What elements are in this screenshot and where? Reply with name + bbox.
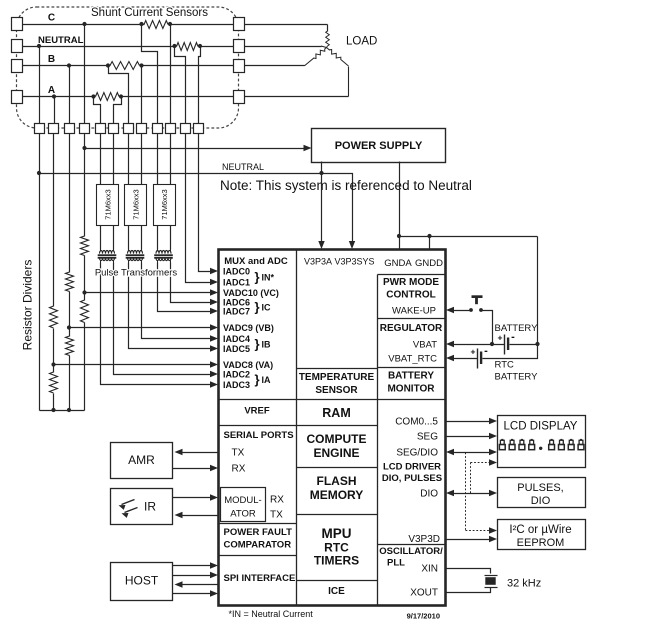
svg-text:B: B — [48, 54, 55, 65]
svg-text:VREF: VREF — [244, 406, 270, 417]
svg-text:-: - — [484, 345, 488, 357]
svg-text:Pulse Transformers: Pulse Transformers — [95, 268, 178, 279]
svg-text:RTC: RTC — [495, 360, 514, 371]
svg-text:XOUT: XOUT — [410, 588, 438, 599]
svg-text:COM0...5: COM0...5 — [395, 417, 438, 428]
svg-text:RX: RX — [270, 495, 284, 506]
svg-text:RX: RX — [232, 464, 246, 475]
svg-text:NEUTRAL: NEUTRAL — [222, 162, 264, 172]
svg-text:32 kHz: 32 kHz — [507, 578, 541, 590]
svg-text:TX: TX — [270, 510, 283, 521]
svg-text:SEG: SEG — [417, 432, 438, 443]
svg-text:IADC1: IADC1 — [223, 277, 250, 287]
svg-text:VBAT_RTC: VBAT_RTC — [388, 354, 437, 365]
svg-text:IADC3: IADC3 — [223, 380, 250, 390]
svg-text:DIO: DIO — [531, 495, 551, 507]
svg-text:ICE: ICE — [328, 586, 345, 597]
svg-text:IR: IR — [144, 500, 156, 514]
svg-text:VBAT: VBAT — [413, 340, 437, 351]
svg-text:IADC7: IADC7 — [223, 306, 250, 316]
svg-text:WAKE-UP: WAKE-UP — [392, 306, 436, 317]
svg-text:GNDA: GNDA — [384, 258, 412, 269]
svg-text:POWER SUPPLY: POWER SUPPLY — [335, 140, 423, 152]
svg-text:PULSES,: PULSES, — [517, 482, 563, 494]
svg-text:MPU: MPU — [322, 526, 352, 541]
svg-text:IA: IA — [262, 375, 272, 385]
svg-text:+: + — [471, 347, 476, 357]
svg-text:VADC9 (VB): VADC9 (VB) — [223, 323, 274, 333]
svg-text:VADC10 (VC): VADC10 (VC) — [223, 288, 279, 298]
svg-text:BATTERY: BATTERY — [388, 371, 434, 382]
svg-text:V3P3D: V3P3D — [408, 534, 440, 545]
svg-text:HOST: HOST — [125, 574, 159, 588]
svg-text:FLASH: FLASH — [317, 474, 357, 488]
svg-text:Shunt Current Sensors: Shunt Current Sensors — [91, 7, 208, 19]
svg-text:}: } — [255, 270, 260, 285]
svg-text:IADC4: IADC4 — [223, 334, 250, 344]
svg-text:9/17/2010: 9/17/2010 — [407, 612, 440, 621]
svg-text:SENSOR: SENSOR — [315, 385, 358, 396]
svg-text:LCD DISPLAY: LCD DISPLAY — [504, 421, 578, 433]
svg-text:POWER FAULT: POWER FAULT — [224, 527, 293, 538]
svg-text:PWR MODE: PWR MODE — [383, 277, 439, 288]
svg-text:IN*: IN* — [262, 272, 275, 282]
svg-text:MEMORY: MEMORY — [310, 488, 364, 502]
svg-text:REGULATOR: REGULATOR — [380, 323, 443, 334]
svg-text:A: A — [48, 85, 55, 96]
svg-text:IC: IC — [262, 302, 272, 312]
svg-text:COMPUTE: COMPUTE — [307, 432, 367, 446]
svg-text:CONTROL: CONTROL — [386, 290, 435, 301]
svg-text:MODUL-: MODUL- — [224, 495, 261, 506]
svg-text:BATTERY: BATTERY — [495, 323, 539, 334]
svg-text:ATOR: ATOR — [230, 509, 256, 520]
svg-text:TX: TX — [232, 448, 245, 459]
svg-text:Resistor Dividers: Resistor Dividers — [21, 260, 35, 351]
svg-text:VADC8 (VA): VADC8 (VA) — [223, 360, 273, 370]
svg-text:*IN = Neutral Current: *IN = Neutral Current — [229, 609, 314, 619]
svg-text:SEG/DIO: SEG/DIO — [396, 448, 438, 459]
svg-text:IADC0: IADC0 — [223, 266, 250, 276]
svg-text:MONITOR: MONITOR — [387, 384, 435, 395]
svg-text:SERIAL PORTS: SERIAL PORTS — [224, 430, 294, 441]
svg-text:TIMERS: TIMERS — [314, 554, 359, 568]
svg-text:ENGINE: ENGINE — [313, 446, 359, 460]
svg-text:}: } — [255, 337, 260, 352]
svg-text:NEUTRAL: NEUTRAL — [38, 35, 84, 46]
svg-text:SPI INTERFACE: SPI INTERFACE — [224, 573, 296, 584]
svg-text:BATTERY: BATTERY — [495, 372, 539, 383]
svg-text:EEPROM: EEPROM — [517, 537, 565, 549]
svg-text:Note: This system is reference: Note: This system is referenced to Neutr… — [220, 178, 472, 193]
svg-text:RTC: RTC — [324, 541, 349, 555]
svg-text:MUX and ADC: MUX and ADC — [224, 256, 288, 267]
svg-text:COMPARATOR: COMPARATOR — [224, 540, 292, 551]
svg-text:LOAD: LOAD — [346, 36, 377, 48]
svg-text:V3P3SYS: V3P3SYS — [334, 257, 374, 267]
svg-text:OSCILLATOR/: OSCILLATOR/ — [379, 546, 443, 557]
svg-text:XIN: XIN — [421, 564, 438, 575]
svg-text:V3P3A: V3P3A — [304, 257, 332, 267]
svg-text:71M6xx3: 71M6xx3 — [160, 189, 169, 219]
svg-text:LCD DRIVER: LCD DRIVER — [383, 462, 441, 473]
svg-text:RAM: RAM — [322, 406, 350, 420]
svg-text:I²C or µWire: I²C or µWire — [509, 524, 571, 536]
svg-text:IADC5: IADC5 — [223, 344, 250, 354]
svg-text:AMR: AMR — [128, 453, 155, 467]
svg-text:GNDD: GNDD — [415, 258, 443, 269]
svg-text:IB: IB — [262, 339, 272, 349]
svg-text:C: C — [48, 13, 55, 24]
svg-text:IADC2: IADC2 — [223, 369, 250, 379]
svg-text:DIO: DIO — [420, 489, 438, 500]
svg-text:}: } — [255, 300, 260, 315]
svg-text:TEMPERATURE: TEMPERATURE — [299, 372, 375, 383]
svg-text:DIO, PULSES: DIO, PULSES — [382, 473, 442, 484]
svg-text:71M6xx3: 71M6xx3 — [103, 189, 112, 219]
svg-text:}: } — [255, 372, 260, 387]
svg-text:71M6xx3: 71M6xx3 — [131, 189, 140, 219]
svg-text:PLL: PLL — [387, 558, 405, 569]
svg-text:+: + — [498, 333, 503, 343]
